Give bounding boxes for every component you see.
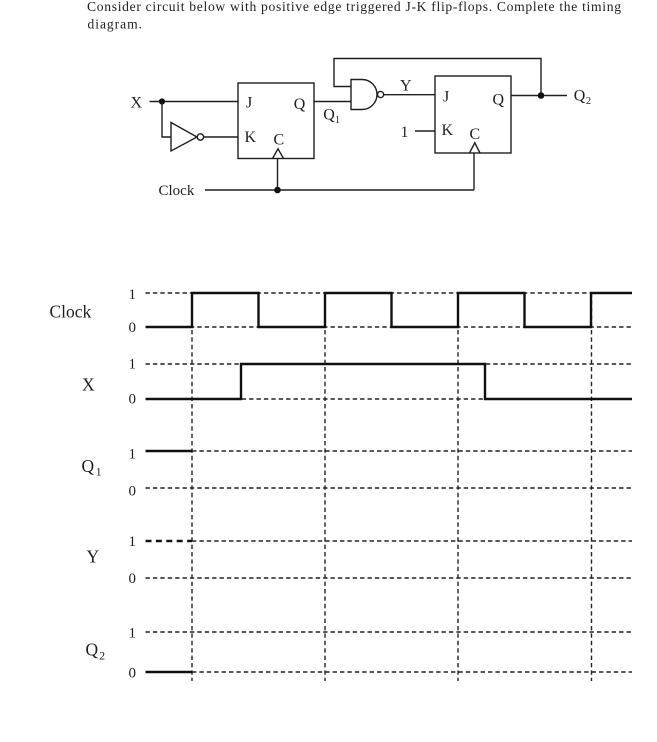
wire feedback top from Q2 node to NAND input <box>334 59 541 96</box>
grid line t2 <box>324 293 326 681</box>
Q2 row dashed level 0 <box>192 671 632 673</box>
svg-text:Q2: Q2 <box>86 640 106 663</box>
wire Q2 output from U2 <box>511 95 567 97</box>
svg-text:Q1: Q1 <box>82 456 102 479</box>
flip-flop U2 body <box>435 76 511 153</box>
svg-text:1: 1 <box>129 626 137 642</box>
svg-text:K: K <box>245 129 257 146</box>
svg-text:J: J <box>443 89 449 106</box>
svg-text:Q: Q <box>294 96 306 113</box>
inverter G1 <box>171 123 204 152</box>
wire X branch down to inverter <box>162 102 171 138</box>
wire Clock branch to C of U1 <box>277 159 279 191</box>
Y row dashed level 1 <box>192 540 632 542</box>
svg-text:1: 1 <box>401 124 409 141</box>
grid line t4 <box>591 293 593 681</box>
X waveform <box>146 364 633 399</box>
svg-text:0: 0 <box>129 392 137 408</box>
Clock row dashed level 0 <box>146 326 633 328</box>
svg-text:Clock: Clock <box>50 302 92 322</box>
svg-text:Q: Q <box>493 91 505 108</box>
svg-text:X: X <box>82 375 95 395</box>
Q1 initial segment high <box>146 450 193 452</box>
clock edge triangle of U2 <box>470 143 481 153</box>
wire Q1 from U1 to NAND G2 <box>314 101 351 103</box>
svg-text:1: 1 <box>129 287 137 303</box>
wire inverter output to K input of U1 <box>204 136 238 138</box>
clock edge triangle of U1 <box>273 149 284 159</box>
svg-text:1: 1 <box>129 447 137 463</box>
svg-text:X: X <box>131 95 143 112</box>
svg-text:K: K <box>442 122 454 139</box>
Q2 initial segment low <box>146 671 193 673</box>
svg-text:1: 1 <box>129 534 137 550</box>
wire Clock horizontal <box>205 189 474 191</box>
svg-text:Y: Y <box>87 547 100 567</box>
svg-text:diagram.: diagram. <box>88 17 143 32</box>
node X junction <box>159 98 165 104</box>
svg-text:Consider circuit below with po: Consider circuit below with positive edg… <box>87 0 621 14</box>
svg-text:1: 1 <box>129 357 137 373</box>
NAND gate G2 <box>351 80 384 110</box>
svg-text:0: 0 <box>129 571 137 587</box>
wire Y from NAND output to J input of U2 <box>384 94 435 96</box>
node Clock junction <box>274 187 281 194</box>
Y initial segment bold dashed <box>146 540 193 542</box>
X row dashed level 1 <box>146 363 633 365</box>
grid line t3 <box>457 293 459 681</box>
svg-text:Q1: Q1 <box>323 107 340 126</box>
Y row dashed level 0 <box>146 577 633 579</box>
Q1 row dashed level 0 <box>146 487 633 489</box>
svg-text:0: 0 <box>129 320 137 336</box>
Q1 row dashed level 1 <box>192 450 632 452</box>
wire Clock up to C of U2 <box>473 153 475 190</box>
svg-text:0: 0 <box>129 665 137 681</box>
svg-text:Y: Y <box>400 78 412 95</box>
svg-text:C: C <box>274 132 285 149</box>
svg-text:0: 0 <box>129 483 137 499</box>
wire constant 1 to K input of U2 <box>415 130 435 132</box>
svg-text:C: C <box>470 126 481 143</box>
svg-text:Q2: Q2 <box>574 87 591 107</box>
wire X to J input of U1 <box>150 101 239 103</box>
Q2 row dashed level 1 <box>146 631 633 633</box>
svg-text:J: J <box>246 95 252 112</box>
svg-text:Clock: Clock <box>159 183 195 199</box>
node Q2 junction <box>538 92 545 99</box>
grid line t1 <box>191 293 193 681</box>
X row dashed level 0 <box>146 398 633 400</box>
Clock waveform <box>146 293 633 327</box>
Clock row dashed level 1 <box>146 292 633 294</box>
flip-flop U1 body <box>238 83 314 159</box>
